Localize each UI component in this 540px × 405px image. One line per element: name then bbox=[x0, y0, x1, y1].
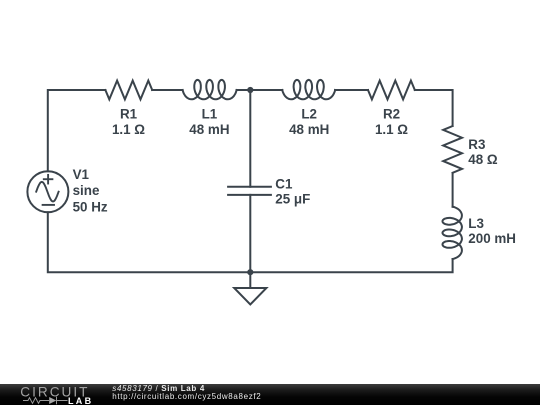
wire top-left from V1 to top rail bbox=[48, 90, 106, 171]
wire L3 to bottom-right corner bbox=[250, 259, 452, 272]
wire node A to L2 bbox=[250, 89, 282, 91]
svg-text:V1: V1 bbox=[73, 167, 90, 182]
wire bottom-left bbox=[48, 212, 251, 272]
resistor R1 bbox=[105, 81, 152, 100]
svg-text:C1: C1 bbox=[275, 177, 293, 192]
wire node A to C1 bbox=[249, 90, 251, 187]
wire C1 to bottom rail bbox=[249, 195, 251, 272]
CircuitLab logo bbox=[0, 384, 100, 405]
svg-text:R2: R2 bbox=[383, 106, 400, 121]
wire L1 to node A bbox=[237, 89, 251, 91]
wire R3 to L3 bbox=[452, 173, 454, 207]
svg-text:L2: L2 bbox=[301, 106, 317, 121]
svg-text:L3: L3 bbox=[468, 216, 484, 231]
svg-text:25 μF: 25 μF bbox=[275, 191, 310, 206]
svg-text:R3: R3 bbox=[468, 137, 485, 152]
svg-text:L1: L1 bbox=[202, 106, 218, 121]
bottom junction dot bbox=[247, 269, 253, 275]
footer bar bbox=[0, 384, 540, 405]
svg-text:48 mH: 48 mH bbox=[189, 122, 229, 137]
svg-text:1.1 Ω: 1.1 Ω bbox=[112, 122, 145, 137]
wire R1 to L1 bbox=[152, 89, 183, 91]
svg-text:200 mH: 200 mH bbox=[468, 231, 516, 246]
svg-text:R1: R1 bbox=[120, 106, 138, 121]
inductor L1 bbox=[183, 80, 237, 99]
wire R2 to top-right corner bbox=[415, 90, 453, 126]
ground bbox=[234, 272, 266, 304]
inductor L2 bbox=[282, 80, 335, 99]
resistor R3 bbox=[443, 126, 462, 173]
svg-text:50 Hz: 50 Hz bbox=[73, 199, 108, 214]
node A junction dot bbox=[247, 87, 253, 93]
svg-text:LAB: LAB bbox=[68, 396, 93, 405]
footer url text bbox=[112, 393, 261, 401]
wire L2 to R2 bbox=[335, 89, 368, 91]
footer title text bbox=[112, 385, 205, 393]
resistor R2 bbox=[368, 81, 415, 100]
svg-text:1.1 Ω: 1.1 Ω bbox=[375, 122, 408, 137]
svg-text:48 mH: 48 mH bbox=[289, 122, 329, 137]
inductor L3 bbox=[443, 207, 462, 259]
svg-text:48 Ω: 48 Ω bbox=[468, 152, 498, 167]
voltage source V1 bbox=[27, 171, 68, 212]
capacitor C1 bbox=[228, 187, 271, 195]
svg-text:sine: sine bbox=[73, 183, 100, 198]
